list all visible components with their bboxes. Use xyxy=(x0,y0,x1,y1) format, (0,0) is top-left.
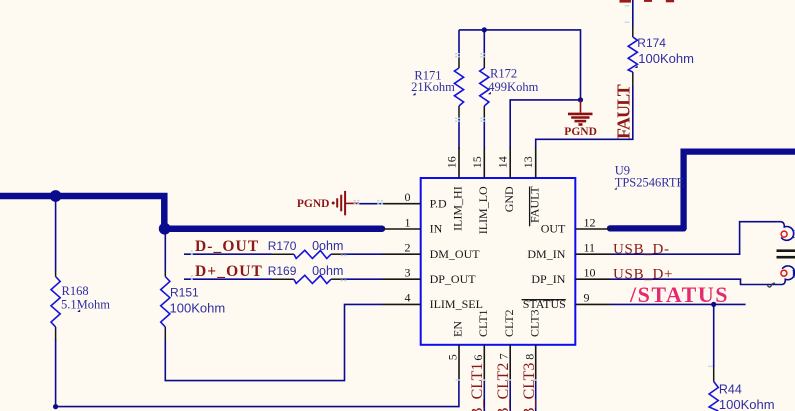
svg-text:CLT3: CLT3 xyxy=(527,309,541,337)
svg-text:R170: R170 xyxy=(268,239,297,253)
svg-text:1: 1 xyxy=(405,215,411,229)
svg-text:/STATUS: /STATUS xyxy=(629,282,729,307)
svg-text:14: 14 xyxy=(496,156,510,168)
svg-text:R168: R168 xyxy=(62,284,89,298)
svg-text:100Kohm: 100Kohm xyxy=(170,300,226,315)
svg-text:16: 16 xyxy=(445,156,459,168)
svg-text:DP_OUT: DP_OUT xyxy=(430,272,477,286)
svg-text:USB_CLT1: USB_CLT1 xyxy=(469,363,486,411)
svg-text:3: 3 xyxy=(405,266,411,280)
svg-text:0: 0 xyxy=(405,190,411,204)
svg-text:CLT2: CLT2 xyxy=(502,309,516,337)
svg-text:0ohm: 0ohm xyxy=(312,239,343,253)
svg-text:7: 7 xyxy=(497,353,511,359)
svg-text:15: 15 xyxy=(470,156,484,168)
svg-text:USB_D-: USB_D- xyxy=(613,241,670,257)
svg-text:PGND: PGND xyxy=(564,126,597,138)
svg-text:PGND: PGND xyxy=(297,198,330,210)
svg-text:2: 2 xyxy=(405,241,411,255)
svg-text:6: 6 xyxy=(471,355,485,361)
svg-text:USB_CLT2: USB_CLT2 xyxy=(495,363,512,411)
svg-text:D-_OUT: D-_OUT xyxy=(195,238,259,255)
svg-text:FAULT: FAULT xyxy=(613,84,633,139)
svg-text:5.1Mohm: 5.1Mohm xyxy=(61,297,110,311)
svg-text:13: 13 xyxy=(521,156,535,168)
svg-text:P.D: P.D xyxy=(430,196,447,210)
svg-text:499Kohm: 499Kohm xyxy=(488,80,538,94)
svg-text:R172: R172 xyxy=(490,66,517,80)
svg-text:IN: IN xyxy=(430,222,443,236)
svg-text:DP_IN: DP_IN xyxy=(531,272,565,286)
svg-text:21Kohm: 21Kohm xyxy=(411,80,455,94)
svg-text:100Kohm: 100Kohm xyxy=(638,51,694,66)
svg-text:0ohm: 0ohm xyxy=(312,264,343,278)
svg-text:D-: D- xyxy=(792,227,795,241)
svg-text:11: 11 xyxy=(584,241,596,255)
svg-text:CLT1: CLT1 xyxy=(476,309,490,337)
svg-text:R151: R151 xyxy=(170,286,199,300)
svg-text:R44: R44 xyxy=(719,383,742,397)
svg-text:4: 4 xyxy=(405,291,411,305)
svg-text:D+_OUT: D+_OUT xyxy=(195,263,263,280)
svg-text:TPS2546RTE: TPS2546RTE xyxy=(615,175,685,189)
svg-text:GND: GND xyxy=(502,186,516,212)
svg-text:8: 8 xyxy=(522,354,536,360)
svg-text:USB_CLT3: USB_CLT3 xyxy=(521,363,538,411)
svg-text:5: 5 xyxy=(446,354,460,360)
svg-text:ILIM_LO: ILIM_LO xyxy=(476,186,490,234)
svg-text:10: 10 xyxy=(584,266,596,280)
svg-text:R169: R169 xyxy=(268,264,297,278)
svg-text:ILIM_SEL: ILIM_SEL xyxy=(430,297,483,311)
svg-text:EN: EN xyxy=(451,321,465,337)
svg-text:R174: R174 xyxy=(637,36,666,50)
svg-text:9: 9 xyxy=(584,291,590,305)
svg-text:ILIM_HI: ILIM_HI xyxy=(451,186,465,231)
svg-text:12: 12 xyxy=(584,215,596,229)
svg-text:OUT: OUT xyxy=(541,222,566,236)
svg-text:DM_OUT: DM_OUT xyxy=(430,247,481,261)
svg-text:USB_D+: USB_D+ xyxy=(613,266,673,282)
svg-text:100Kohm: 100Kohm xyxy=(719,397,775,411)
svg-text:D+: D+ xyxy=(792,266,795,280)
svg-text:DM_IN: DM_IN xyxy=(527,247,565,261)
